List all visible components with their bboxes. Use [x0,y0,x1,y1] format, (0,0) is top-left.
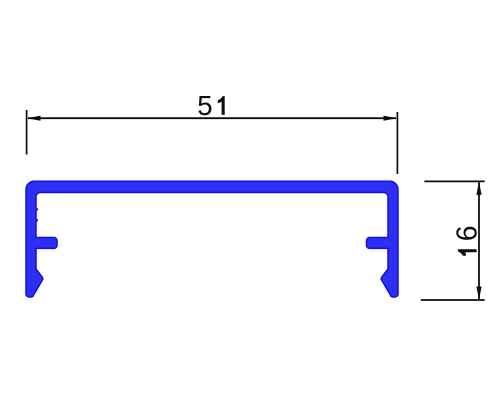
dim 16 up arrow [476,181,481,195]
svg-text:5: 5 [197,90,212,121]
dim 51 left extension line [26,110,28,155]
dim 51 text digit 1 [218,96,225,115]
svg-text:6: 6 [452,225,484,241]
dim 16 down arrow [476,287,481,301]
dim 16 bottom extension line [421,299,485,301]
dim 51 right extension line [396,112,398,174]
dim 51 dimension line [28,117,396,119]
dim 16 text digit 1 (rotated) [458,249,477,256]
aluminium cover profile cross-section [26,181,398,297]
dim 51 right arrow [384,116,398,121]
dim 51 left arrow [27,116,41,121]
dim 16 top extension line [424,180,484,182]
dim 16 dimension line [478,182,480,299]
